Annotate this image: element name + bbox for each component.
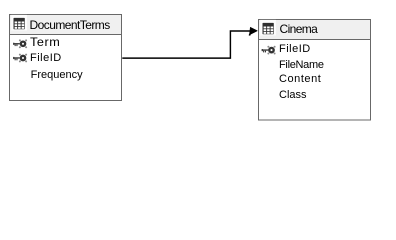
relationship connector wire from DocumentTerms to Cinema [122, 31, 251, 58]
column Class [279, 89, 307, 101]
table icon (Cinema) [260, 20, 276, 36]
column FileName [279, 59, 324, 71]
table Cinema: frame [259, 20, 371, 121]
arrowhead into Cinema [249, 27, 258, 35]
header label Cinema [280, 22, 318, 36]
column Content [279, 73, 321, 85]
table icon (DocumentTerms) [11, 15, 27, 31]
column FileID (DocumentTerms) [30, 52, 62, 64]
column Term [30, 37, 60, 49]
key icon (FileID, PK, Cinema) [262, 46, 276, 55]
column Frequency [31, 69, 83, 81]
key icon (Term, PK) [13, 39, 27, 48]
column FileID (Cinema) [279, 43, 311, 55]
table DocumentTerms: frame [10, 15, 122, 101]
header label DocumentTerms [30, 18, 110, 32]
key icon (FileID, PK, DocumentTerms) [13, 54, 27, 63]
